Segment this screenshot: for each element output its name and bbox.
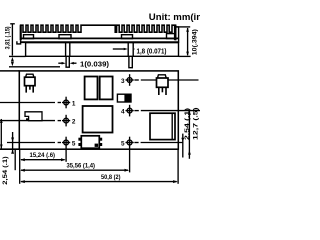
frame bottom edge extension to page edge: [0, 148, 19, 150]
pin 2 crosshair: [62, 115, 70, 127]
unit note text: [149, 12, 217, 23]
svg-text:5: 5: [121, 140, 125, 147]
pin P2 side view through body: [127, 43, 129, 57]
svg-text:2,54 (.1): 2,54 (.1): [2, 156, 9, 185]
svg-text:3,81 (.15): 3,81 (.15): [5, 26, 12, 49]
heatsink clamp clip 2: [59, 35, 71, 39]
svg-text:4: 4: [121, 108, 125, 115]
cropped dimension line at left edge: [0, 119, 2, 149]
extension line pin column 2: [129, 149, 131, 172]
svg-text:Unit: mm(inch): Unit: mm(inch): [149, 12, 200, 23]
dimension 50,8 (2): [21, 181, 177, 183]
dimension 15,24 (.6): [21, 159, 65, 161]
pin P1 side view through body: [65, 43, 67, 57]
heatsink left mounting foot: [17, 40, 21, 44]
capacitor C1: [85, 77, 98, 100]
svg-text:15,24 (.6): 15,24 (.6): [30, 152, 56, 159]
pin 4 crosshair: [126, 105, 134, 117]
seating plane line: [9, 66, 60, 68]
svg-text:12,7 (.5): 12,7 (.5): [192, 108, 199, 141]
dimension 12,7 (.5) right: [188, 111, 190, 159]
dimension 1,8 (0.071) pin width: [113, 48, 124, 50]
svg-text:5: 5: [72, 140, 76, 147]
pin 5 right crosshair: [126, 137, 134, 150]
diode flag component on pin2 line: [25, 112, 42, 121]
extension line pin column 1: [65, 149, 67, 162]
pin 2 leader centerline: [0, 120, 61, 122]
svg-text:1(0.039): 1(0.039): [80, 61, 109, 68]
pin number labels: [72, 78, 125, 148]
heatsink clamp clip 4: [167, 34, 176, 39]
dimension 2,54 (.1) left: [12, 132, 14, 154]
svg-text:3: 3: [121, 78, 125, 85]
svg-text:1: 1: [72, 100, 76, 107]
big square component right: [150, 113, 175, 139]
pin 3 leader centerline: [134, 79, 198, 81]
dimension 2,54 (.1) right: [182, 134, 184, 158]
dimension 35,56 (1,4): [21, 169, 128, 171]
pin 1 leader centerline: [0, 102, 61, 104]
extension line inner left: [14, 149, 16, 170]
pin 5 right leader centerline: [134, 142, 182, 144]
board outline frame bottom view: [19, 71, 178, 149]
body top line: [21, 41, 179, 43]
svg-text:10(.394): 10(.394): [191, 29, 198, 55]
frame top edge extension to page edge: [0, 70, 19, 72]
pin 5 left crosshair: [62, 137, 70, 150]
transistor Q2 top right: [158, 75, 167, 78]
extension line frame left: [19, 150, 21, 184]
transformer T1 big square: [83, 106, 113, 133]
component with dark half (inductor): [117, 94, 131, 102]
heatsink clamp clip 1: [24, 35, 34, 39]
heatsink fins comb: [21, 25, 176, 40]
SMD component bottom with end tabs: [81, 136, 99, 148]
transistor Q1 top left: [26, 74, 34, 77]
heatsink clamp clip 3: [122, 35, 133, 39]
svg-text:50,8 (2): 50,8 (2): [101, 174, 121, 181]
pin 4 leader centerline: [134, 110, 200, 112]
extension line frame right: [177, 150, 179, 184]
pin 1 crosshair: [62, 97, 70, 109]
capacitor C2: [100, 77, 113, 100]
heatsink baseplate lower edge: [21, 37, 179, 39]
dimension 1(0.039) pin width: [58, 62, 76, 64]
heatsink left end wall: [20, 25, 22, 40]
pin P1 side view lead: [66, 56, 69, 67]
dimension 10(.394) height: [176, 27, 191, 57]
pin P2 side view lead: [129, 56, 132, 67]
pin 5 left leader centerline: [7, 142, 61, 144]
module body side view: [26, 43, 179, 57]
svg-text:2: 2: [72, 118, 76, 125]
dimension 3,81 (.15) left: [9, 24, 26, 57]
heatsink right end wall: [174, 25, 177, 40]
svg-text:35,56 (1,4): 35,56 (1,4): [67, 162, 96, 169]
pin 3 crosshair: [126, 74, 134, 86]
svg-text:1,8 (0.071): 1,8 (0.071): [137, 48, 167, 55]
heatsink right step: [176, 27, 179, 43]
